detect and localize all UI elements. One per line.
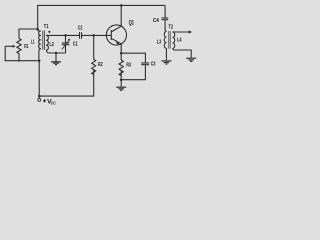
- svg-text:L4: L4: [177, 38, 182, 44]
- svg-text:T1: T1: [44, 24, 49, 30]
- svg-text:C4: C4: [153, 18, 160, 24]
- svg-text:R3: R3: [126, 62, 131, 68]
- svg-text:T2: T2: [168, 25, 173, 31]
- svg-text:L1: L1: [31, 40, 35, 46]
- svg-text:Q1: Q1: [129, 19, 135, 26]
- svg-text:L3: L3: [157, 40, 162, 46]
- svg-text:R2: R2: [98, 62, 103, 68]
- svg-text:C3: C3: [151, 61, 156, 67]
- svg-text:CC: CC: [51, 101, 56, 106]
- svg-text:C1: C1: [73, 41, 78, 47]
- svg-text:C2: C2: [78, 25, 83, 31]
- svg-text:R1: R1: [24, 44, 28, 50]
- svg-text:L2: L2: [50, 42, 54, 48]
